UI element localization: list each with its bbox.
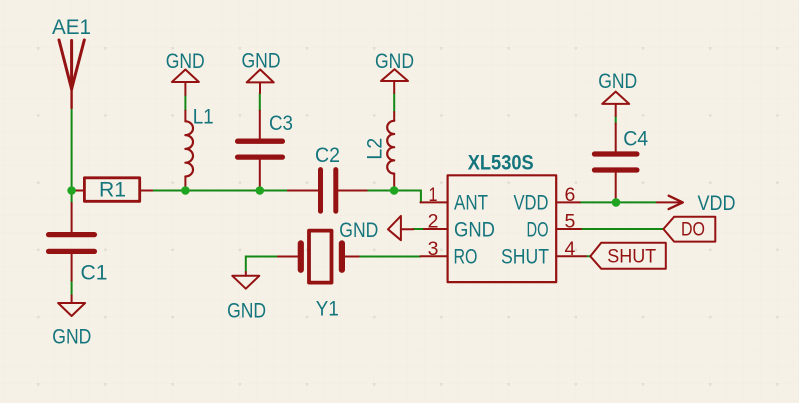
svg-text:3: 3: [428, 238, 439, 260]
svg-text:ANT: ANT: [454, 192, 488, 215]
svg-text:GND: GND: [52, 325, 91, 349]
svg-text:GND: GND: [375, 49, 414, 73]
svg-text:AE1: AE1: [52, 15, 91, 39]
svg-text:SHUT: SHUT: [607, 246, 656, 268]
svg-text:6: 6: [565, 184, 576, 206]
svg-text:L2: L2: [362, 138, 386, 160]
svg-text:GND: GND: [339, 218, 378, 242]
svg-text:Y1: Y1: [316, 297, 339, 321]
svg-text:GND: GND: [598, 69, 637, 93]
svg-text:GND: GND: [454, 218, 495, 241]
svg-text:C2: C2: [315, 143, 340, 167]
svg-text:C4: C4: [623, 127, 648, 151]
svg-text:VDD: VDD: [698, 191, 736, 215]
svg-text:DO: DO: [527, 218, 549, 241]
svg-text:5: 5: [565, 211, 576, 233]
svg-text:R1: R1: [99, 178, 126, 202]
svg-text:DO: DO: [681, 219, 705, 241]
svg-text:XL530S: XL530S: [468, 150, 534, 174]
svg-text:SHUT: SHUT: [501, 245, 549, 268]
svg-text:GND: GND: [227, 299, 266, 323]
svg-text:C3: C3: [269, 111, 293, 135]
svg-text:1: 1: [429, 184, 438, 206]
svg-text:L1: L1: [193, 105, 214, 129]
svg-text:4: 4: [565, 238, 576, 260]
svg-text:GND: GND: [166, 49, 205, 73]
svg-text:RO: RO: [454, 245, 478, 268]
svg-text:VDD: VDD: [514, 192, 549, 215]
svg-text:GND: GND: [242, 49, 281, 73]
svg-text:C1: C1: [81, 261, 108, 285]
svg-text:2: 2: [428, 210, 439, 232]
